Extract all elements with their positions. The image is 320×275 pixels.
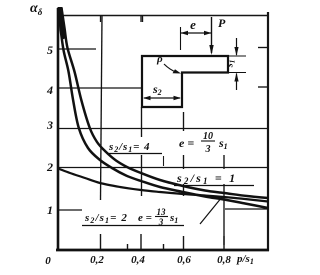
svg-text:0,6: 0,6 xyxy=(177,254,191,266)
svg-text:ρ: ρ xyxy=(156,53,163,65)
svg-text:3: 3 xyxy=(46,118,53,132)
svg-text:e =: e = xyxy=(138,212,152,224)
top ticks xyxy=(101,16,142,22)
svg-text:3: 3 xyxy=(205,144,211,155)
gridline y=2 xyxy=(58,167,268,169)
svg-text:e =: e = xyxy=(179,136,194,150)
axis frame: right border xyxy=(267,12,269,251)
gridline y=3 xyxy=(58,128,268,130)
gridline y=1 xyxy=(58,209,268,210)
curve s2/s1=4 xyxy=(62,8,269,198)
gridline y=5 xyxy=(58,48,268,50)
svg-text:13: 13 xyxy=(157,207,167,217)
underline label4 xyxy=(82,225,184,227)
label s2/s1=2 e=13/3 s1 white patch xyxy=(82,205,184,227)
curve s2/s1=1 xyxy=(58,169,268,202)
svg-text:P: P xyxy=(218,16,226,30)
inset dimension s1: arrows xyxy=(236,38,238,55)
svg-text:0,4: 0,4 xyxy=(131,254,145,266)
svg-text:4: 4 xyxy=(46,83,53,97)
inset force P arrow xyxy=(211,17,213,53)
inset dimension s1: extension lines xyxy=(229,56,246,73)
inset L-shaped block outline xyxy=(142,56,228,107)
axis frame: bottom x-axis xyxy=(56,249,269,252)
curve s2/s1=2 xyxy=(59,8,269,208)
inset dimension e: arrowed line xyxy=(181,32,212,34)
inset dimension e: extension line xyxy=(180,27,182,50)
svg-text:5: 5 xyxy=(47,43,53,57)
label e=10/3 s1 white patch xyxy=(177,131,232,155)
vertical gridline x=0.2 xyxy=(101,15,103,200)
vertical gridline x=0.6 xyxy=(183,112,185,196)
axis frame: left y-axis xyxy=(57,8,60,251)
gridline y=4 xyxy=(58,87,268,88)
svg-text:0: 0 xyxy=(45,255,51,267)
svg-text:e: e xyxy=(190,17,196,32)
svg-text:2: 2 xyxy=(46,160,53,174)
vertical gridline x=0.4 xyxy=(142,15,144,22)
label s2/s1=1 white patch xyxy=(174,169,246,184)
axis frame: top border xyxy=(57,15,269,17)
vertical gridline x=0.8 xyxy=(223,155,225,245)
label s2/s1=4 white patch xyxy=(106,137,164,155)
inset dimension s2: arrowed line xyxy=(144,97,180,99)
ink blob where curves merge at axis top xyxy=(58,7,67,40)
inset white backing xyxy=(142,56,228,107)
svg-text:0,8: 0,8 xyxy=(217,254,231,266)
bottom ticks xyxy=(101,234,225,249)
svg-text:0,2: 0,2 xyxy=(90,254,104,266)
svg-text:10: 10 xyxy=(203,131,213,142)
leader line to curve s2/s1=2 xyxy=(200,197,222,224)
svg-text:1: 1 xyxy=(47,203,53,217)
